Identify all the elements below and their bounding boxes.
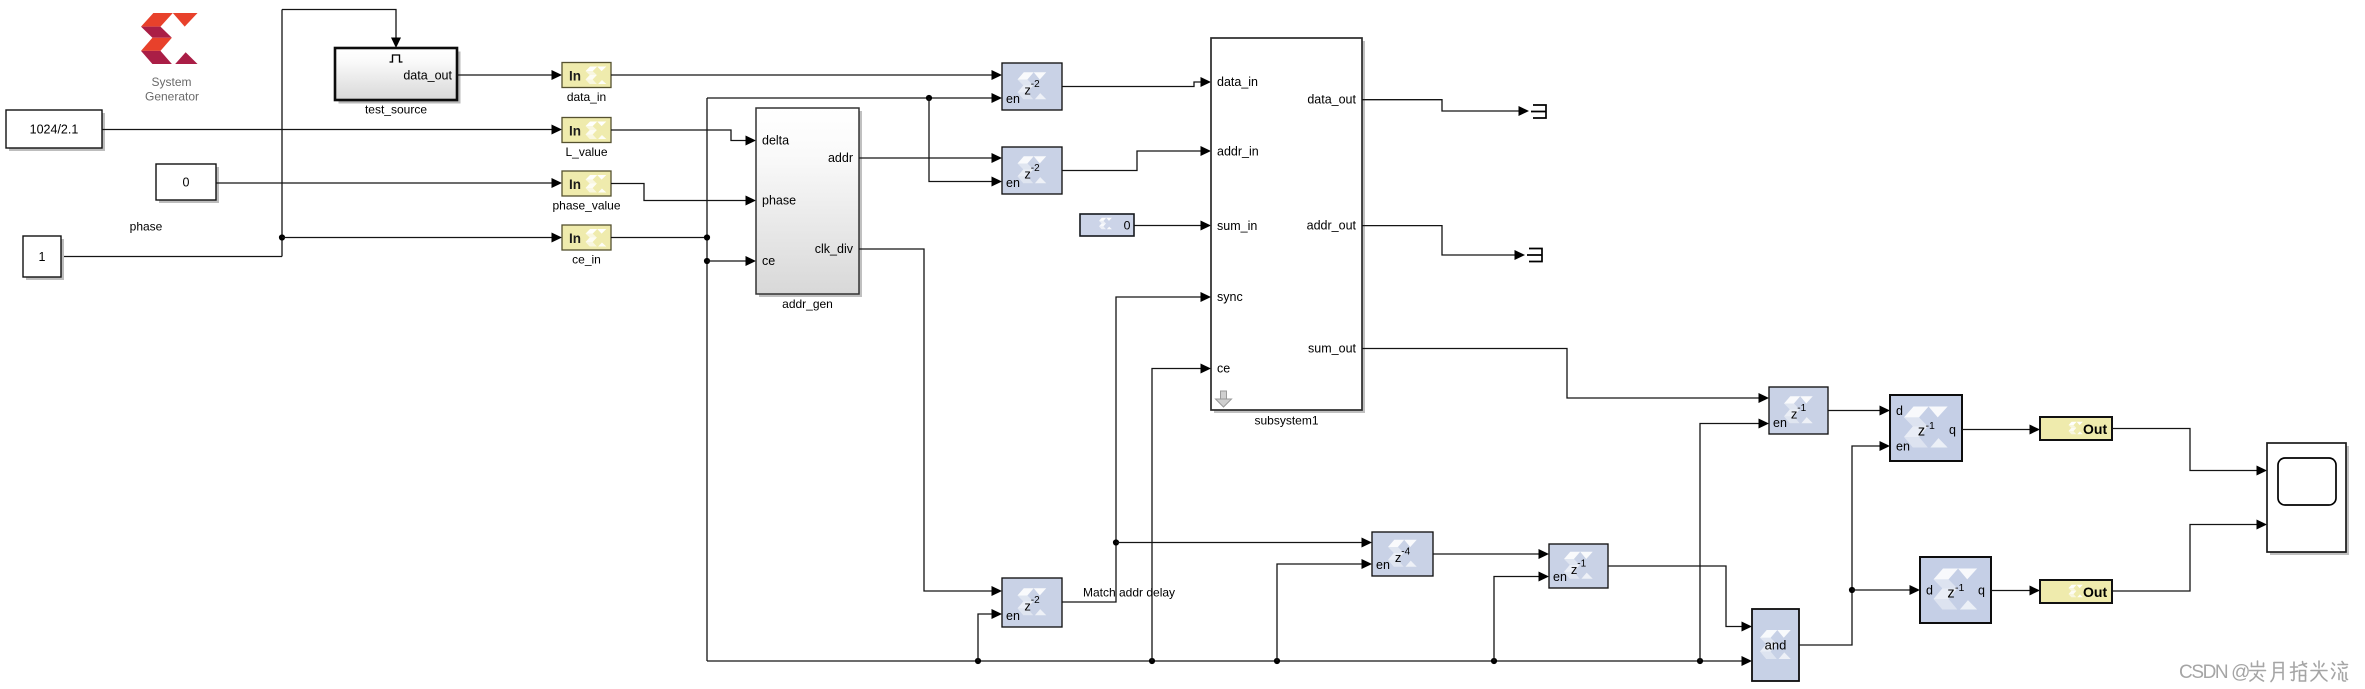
wire z-4 to z-1 mid [1433,553,1543,555]
delay z-2 match addr delay [1002,578,1062,627]
svg-text:-2: -2 [1031,595,1040,606]
wire register2 q to Out gateway bottom [1991,590,2034,592]
svg-text:-1: -1 [1797,403,1806,414]
gateway In data_in [562,63,611,105]
subsystem1 dropdown arrow icon [1216,391,1232,407]
svg-text:In: In [569,124,581,139]
wire and out to register en [1799,446,1884,645]
terminator data_out [1531,105,1546,118]
wire match delay out to subsystem1 sync [1062,297,1205,602]
wire rail to match delay en [978,614,996,661]
gateway Out top [2040,417,2112,440]
wire phase_value to addr_gen phase [611,184,750,201]
wire branch to delay z-4 input [1116,542,1366,544]
delay z-2 addr path [1002,147,1062,194]
svg-text:addr_in: addr_in [1217,145,1259,159]
svg-text:addr_out: addr_out [1307,219,1357,233]
wire rail to delay z-1 top en [1700,424,1763,662]
svg-text:In: In [569,231,581,246]
svg-text:z: z [1918,424,1925,440]
delay z-1 mid [1549,544,1608,588]
svg-text:d: d [1896,404,1903,418]
svg-text:1024/2.1: 1024/2.1 [30,122,79,136]
wire data_in to delay z-2 top input [611,74,996,76]
junction rail to z-1 top en [1697,658,1703,664]
register z-1 bottom (d q) [1920,557,1991,623]
svg-text:1: 1 [39,250,46,264]
wire and out branch to register2 d [1852,589,1914,591]
wire rail to delay z-4 en [1277,564,1366,661]
junction en branch [926,95,932,101]
wire ce to delay z-2 second en [929,98,996,182]
gateway Out bottom [2040,580,2112,603]
svg-text:en: en [1553,570,1567,584]
wire vertical from constant 1 branch [281,10,283,257]
junction ce to addr_gen [704,258,710,264]
svg-text:phase: phase [762,194,796,208]
wire addr_gen addr to delay z-2 second input [859,157,996,159]
junction and out to register d [1849,587,1855,593]
svg-text:sum_out: sum_out [1308,342,1356,356]
svg-text:data_in: data_in [1217,75,1258,89]
svg-text:-1: -1 [1955,582,1964,594]
svg-text:en: en [1006,92,1020,106]
System Generator logo [141,13,199,104]
block addr_gen [756,108,862,311]
wire register q to Out gateway top [1962,429,2034,431]
svg-text:-2: -2 [1031,163,1040,174]
svg-text:ce_in: ce_in [572,253,601,267]
wire rail to subsystem1 ce [1152,369,1205,662]
junction rail to subsystem1 ce [1149,658,1155,664]
wire z-1 mid to and input1 [1608,566,1746,627]
wire from constant one [61,256,282,258]
wire constant 1024/2.1 to L_value [102,129,556,131]
svg-text:q: q [1949,423,1956,437]
svg-text:test_source: test_source [365,103,427,117]
svg-text:delta: delta [762,134,789,148]
svg-text:sum_in: sum_in [1217,219,1257,233]
svg-text:en: en [1773,416,1787,430]
svg-text:0: 0 [1124,218,1131,232]
svg-text:en: en [1376,558,1390,572]
wire ce_in to junction [611,237,707,239]
svg-text:phase: phase [130,220,163,234]
gateway In ce_in [562,225,611,267]
svg-text:data_out: data_out [1307,93,1356,107]
block constant 0 phase [130,164,219,234]
wire L_value to addr_gen delta [611,130,750,141]
junction rail to z-4 en [1274,658,1280,664]
svg-text:en: en [1896,440,1910,454]
svg-text:phase_value: phase_value [552,199,620,213]
svg-text:Generator: Generator [145,90,199,104]
svg-text:-1: -1 [1577,559,1586,570]
svg-text:-1: -1 [1926,420,1935,432]
wire sum_out to delay z-1 top [1362,349,1763,399]
svg-text:and: and [1765,638,1787,653]
wire addr_gen clk_div to match delay input [859,249,996,591]
delay z-1 top [1769,387,1828,434]
svg-text:L_value: L_value [565,145,607,159]
svg-text:In: In [569,177,581,192]
wire bottom ce rail [707,660,1746,662]
svg-text:0: 0 [183,175,190,189]
wire rail to delay z-1 mid en [1494,577,1543,662]
wire trigger into test_source top [282,10,396,47]
svg-text:sync: sync [1217,290,1243,304]
block test_source [335,48,461,117]
wire addr_out to terminator2 [1362,226,1518,255]
svg-text:q: q [1978,584,1985,598]
delay z-4 [1372,532,1433,576]
wire delay z-2 data to subsystem1 data_in [1062,82,1205,87]
svg-text:z: z [1947,586,1954,602]
watermark CSDN [2179,661,2348,683]
register z-1 top (d en q) [1890,395,1962,461]
wire constant 0 to phase_value [216,182,556,184]
junction ce_in [704,234,710,240]
svg-text:-4: -4 [1401,547,1410,558]
wire ce to addr_gen ce [707,260,750,262]
svg-text:addr_gen: addr_gen [782,297,833,311]
wire Out top to scope input1 [2112,429,2261,471]
wire delay z-2 addr to subsystem1 addr_in [1062,151,1205,171]
block and [1752,609,1799,681]
svg-text:addr: addr [828,151,853,165]
wire data_out to terminator1 [1362,100,1522,111]
svg-text:en: en [1006,176,1020,190]
block constant 1 [23,236,64,280]
wire z-1 top to register d [1828,410,1884,412]
svg-text:Match addr delay: Match addr delay [1083,586,1175,600]
wire xilinx constant to subsystem1 sum_in [1134,225,1205,227]
svg-text:-2: -2 [1031,79,1040,90]
terminator addr_out [1527,249,1542,262]
wire ce to delay z-2 top en [707,97,996,99]
svg-text:ce: ce [1217,362,1230,376]
svg-text:CSDN @: CSDN @ [2179,662,2249,683]
junction constant-one / ce_in [279,234,285,240]
wire ce vertical distribution [706,98,708,661]
delay z-2 data path [1002,63,1062,110]
svg-text:In: In [569,69,581,84]
svg-text:subsystem1: subsystem1 [1254,414,1318,428]
wire Out bottom to scope input2 [2112,525,2261,592]
svg-text:en: en [1006,609,1020,623]
block xilinx constant 0 [1080,214,1134,236]
svg-text:System: System [151,75,191,89]
wire test_source data_out to data_in [457,74,556,76]
gateway In L_value [562,118,611,160]
svg-text:ce: ce [762,254,775,268]
junction rail to z-1 mid en [1491,658,1497,664]
junction sync branch to z-4 [1113,539,1119,545]
block scope [2267,443,2349,555]
junction rail to match delay en [975,658,981,664]
wire to ce_in gateway [282,237,556,239]
svg-text:data_out: data_out [403,69,452,83]
block subsystem1 [1211,38,1365,428]
svg-text:d: d [1926,584,1933,598]
svg-text:clk_div: clk_div [815,242,854,256]
block constant 1024/2.1 [6,110,105,151]
svg-text:Out: Out [2083,421,2107,437]
svg-text:data_in: data_in [567,90,606,104]
gateway In phase_value [552,171,620,213]
svg-text:Out: Out [2083,584,2107,600]
